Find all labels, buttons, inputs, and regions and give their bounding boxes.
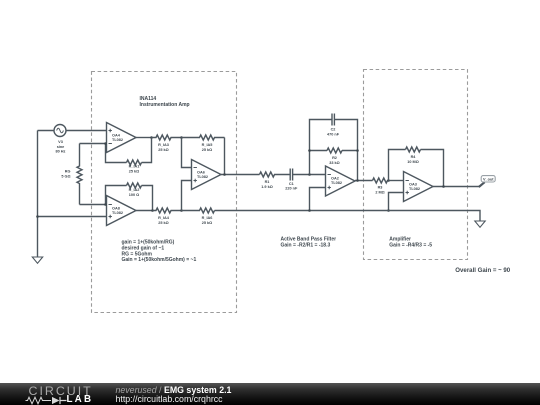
wire OA8 feedback (106, 186, 153, 211)
svg-text:R_IA5: R_IA5 (202, 143, 213, 147)
svg-text:Overall Gain = ~ 90: Overall Gain = ~ 90 (455, 267, 510, 274)
svg-text:TL082: TL082 (112, 211, 123, 215)
label R1 (261, 180, 273, 189)
label V_out (483, 177, 494, 181)
junction tee (36, 215, 39, 218)
svg-text:25 kΩ: 25 kΩ (202, 148, 212, 152)
label OA3 (409, 183, 420, 192)
wire OA6 - input (182, 138, 192, 168)
resistor R_IA1 (127, 160, 142, 165)
output flag V_out (481, 176, 495, 182)
label OA2 (331, 177, 342, 186)
resistor R_IA6 (182, 208, 215, 213)
resistor R_IA5 (182, 135, 225, 140)
svg-text:Gain = 1+(50kohm/5Gohm) = ~1: Gain = 1+(50kohm/5Gohm) = ~1 (122, 257, 197, 263)
resistor R1 (260, 172, 291, 177)
note gain text (122, 240, 197, 264)
wire OA6 + input (182, 181, 192, 211)
svg-text:R_IA1: R_IA1 (129, 164, 140, 168)
junction node B (180, 209, 183, 212)
svg-text:OA8: OA8 (112, 207, 120, 211)
op-amp OA8 (107, 196, 137, 226)
wire V3 right to OA4 + input (66, 130, 107, 132)
svg-text:R1: R1 (265, 180, 270, 184)
junction R2 left (308, 149, 311, 152)
label R_IA4 (158, 216, 170, 225)
note amplifier (389, 237, 432, 249)
label V3 (56, 140, 66, 153)
note overall gain (455, 267, 510, 274)
svg-text:80 Hz: 80 Hz (56, 150, 66, 154)
wire OA3 + to rail (389, 193, 404, 211)
junction OA3 + rail (387, 209, 390, 212)
label R_IA3 (158, 143, 169, 152)
junction OA3 - (387, 179, 390, 182)
junction OA2 out (356, 179, 359, 182)
footer text line 1 (116, 386, 232, 395)
svg-text:25 kΩ: 25 kΩ (158, 148, 168, 152)
footer bar (0, 383, 540, 405)
svg-text:2 MΩ: 2 MΩ (375, 191, 384, 195)
svg-text:R3: R3 (378, 186, 383, 190)
svg-text:RG: RG (65, 169, 71, 173)
label OA8 (112, 207, 123, 216)
svg-text:sine: sine (57, 145, 65, 149)
footer text line 2 (116, 395, 223, 404)
resistor R_IA3 (152, 135, 182, 140)
Amplifier dashed box (364, 70, 468, 260)
svg-text:TL082: TL082 (112, 138, 123, 142)
svg-text:V_out: V_out (483, 177, 494, 181)
note band pass (281, 237, 337, 249)
wire V3 left to rail (38, 130, 55, 132)
wire C2 loop (310, 120, 358, 151)
label OA4 (112, 134, 123, 143)
svg-text:R2: R2 (332, 156, 337, 160)
logo LAB (67, 395, 94, 405)
wire OA3 output (433, 186, 480, 188)
wire left rail vertical (37, 131, 39, 258)
svg-text:TL082: TL082 (197, 175, 208, 179)
wire R_IA5 down to OA6 out (224, 138, 226, 175)
svg-text:Gain = -R4/R3 = -5: Gain = -R4/R3 = -5 (389, 243, 432, 249)
svg-text:470 nF: 470 nF (327, 132, 340, 136)
svg-text:OA4: OA4 (112, 134, 121, 138)
logo diode (52, 397, 60, 404)
ground (right) (475, 221, 485, 227)
svg-text:220 nF: 220 nF (285, 186, 298, 190)
op-amp OA2 (326, 166, 356, 196)
wire RG bottom to OA8 - (80, 204, 106, 206)
wire RG top to OA4 - (80, 143, 106, 145)
junction OA4 out (150, 136, 153, 139)
junction OA8 - (104, 203, 107, 206)
wire OA8 output (136, 210, 153, 212)
label C2 (327, 127, 340, 136)
op-amp OA4 (107, 123, 137, 153)
svg-text:Gain = -R2/R1 = -18.3: Gain = -R2/R1 = -18.3 (281, 242, 331, 248)
svg-text:C2: C2 (331, 127, 336, 131)
junction R2 right (356, 149, 359, 152)
svg-text:10 MΩ: 10 MΩ (407, 160, 419, 164)
svg-text:OA3: OA3 (409, 183, 417, 187)
junction node A (180, 136, 183, 139)
capacitor C2 (332, 114, 334, 126)
op-amp OA3 (404, 172, 434, 202)
wire OA6 output (221, 174, 260, 176)
resistor R_IA4 (153, 208, 182, 213)
svg-text:25 kΩ: 25 kΩ (129, 169, 139, 173)
resistor RG (77, 144, 82, 205)
svg-text:33 kΩ: 33 kΩ (329, 161, 339, 165)
wire C1 to OA2 - (293, 174, 326, 176)
svg-text:Instrumentation Amp: Instrumentation Amp (140, 102, 190, 108)
junction rail OA2 + (308, 209, 311, 212)
label R4 (407, 155, 419, 164)
ground (left) (32, 257, 42, 263)
svg-text:25 kΩ: 25 kΩ (202, 221, 212, 225)
svg-text:OA6: OA6 (197, 171, 205, 175)
wire OA4 output (136, 137, 152, 139)
op-amp OA6 (192, 160, 222, 190)
wire tee to OA8 + input (38, 216, 107, 218)
svg-text:5 GΩ: 5 GΩ (61, 174, 70, 178)
junction OA2 - node (308, 173, 311, 176)
resistor R2 (327, 148, 342, 153)
svg-text:25 kΩ: 25 kΩ (158, 221, 168, 225)
label OA6 (197, 171, 208, 180)
svg-text:100 Ω: 100 Ω (129, 193, 139, 197)
svg-text:R4: R4 (411, 155, 417, 159)
svg-text:V3: V3 (58, 140, 63, 144)
voltage source V3 (54, 125, 66, 137)
INA114 dashed box (92, 72, 237, 313)
svg-text:OA2: OA2 (331, 177, 339, 181)
svg-text:R_IA4: R_IA4 (158, 216, 170, 220)
label R3 (375, 186, 384, 195)
title INA114 (140, 96, 190, 108)
resistor R_IA2 (127, 183, 142, 188)
label R_IA2 (129, 188, 140, 197)
logo CIRCUIT (29, 385, 93, 397)
wire OA4 feedback (106, 138, 152, 163)
label RG (61, 169, 70, 178)
svg-text:1.9 kΩ: 1.9 kΩ (261, 185, 273, 189)
label R2 (329, 156, 339, 165)
wire R4 feedback (389, 150, 444, 187)
junction OA8 out (151, 209, 154, 212)
label R_IA1 (129, 164, 140, 173)
wire OA3 - stub (389, 180, 404, 182)
svg-text:TL082: TL082 (331, 181, 342, 185)
resistor R4 (406, 147, 421, 152)
resistor R3 (373, 178, 389, 183)
svg-text:TL082: TL082 (409, 187, 420, 191)
wire ground rail (215, 211, 481, 222)
logo zigzag wire (26, 397, 52, 404)
svg-text:R_IA2: R_IA2 (129, 188, 140, 192)
svg-text:C1: C1 (289, 182, 294, 186)
wire OA2 feedback R2 (310, 151, 358, 181)
label R_IA5 (202, 143, 213, 152)
wire OA2 output (355, 180, 373, 182)
junction OA6 out (223, 173, 226, 176)
wire OA2 + to rail (310, 188, 326, 211)
label R_IA6 (202, 216, 213, 225)
capacitor C1 (290, 169, 292, 181)
svg-text:R_IA6: R_IA6 (202, 216, 213, 220)
svg-text:R_IA3: R_IA3 (158, 143, 169, 147)
junction OA3 out (442, 185, 445, 188)
junction OA4 - (104, 142, 107, 145)
label C1 (285, 182, 298, 191)
